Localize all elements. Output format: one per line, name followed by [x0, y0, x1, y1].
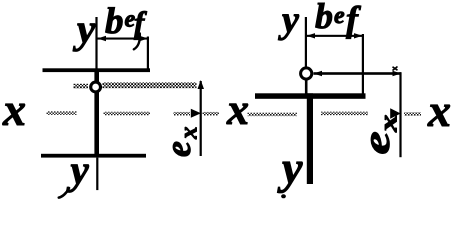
- y-axis segment between circle and flange (right section): [305, 80, 308, 94]
- centroid circle (left section): [91, 82, 101, 92]
- svg-text:x: x: [427, 85, 451, 136]
- bottom flange (left section): [41, 154, 146, 158]
- centroid circle (right section): [301, 68, 312, 79]
- x-axis dash right (right section): [321, 112, 368, 116]
- short centroid dash left of circle (left section): [74, 84, 89, 89]
- y-axis lower segment (left section): [96, 158, 98, 191]
- arrowhead right on centroid line (right section): [393, 71, 402, 76]
- small cross mark above corner (right section): [393, 67, 398, 71]
- arrowhead right of b_ef (left section): [140, 36, 149, 41]
- dimension line b_ef (left section): [97, 38, 148, 40]
- x-axis dash 2 (left section): [104, 112, 151, 116]
- svg-text:x: x: [2, 84, 26, 135]
- arrowhead up at top of e_x (left section): [198, 80, 205, 89]
- svg-text:b: b: [105, 1, 124, 42]
- svg-text:x: x: [226, 85, 249, 134]
- svg-text:e: e: [334, 3, 345, 29]
- x-axis short dash after dimension (right section): [404, 112, 421, 116]
- x-axis dash left (right section): [248, 113, 298, 117]
- arrowhead left of b_ef (left section): [98, 36, 107, 41]
- web (right section): [307, 93, 313, 184]
- svg-text:b: b: [315, 0, 333, 36]
- flange (right section): [255, 93, 366, 99]
- dimension line b_ef (right section): [306, 35, 363, 37]
- arrowhead left of b_ef (right section): [307, 33, 316, 38]
- arrowhead at x-axis on e_x (right section): [390, 108, 401, 118]
- extension tick right of b_ef down to flange (right section): [362, 34, 364, 94]
- arrowhead at x-axis on e_x (left section): [191, 109, 201, 118]
- x-axis dash 4 (left section): [203, 112, 220, 116]
- arrowhead right of b_ef (right section): [354, 33, 363, 38]
- y-axis upper segment (left section): [95, 17, 97, 69]
- extension tick right of b_ef (left section): [147, 37, 149, 71]
- dimension line e_x vertical (right section): [399, 72, 401, 157]
- centroid line from circle to e_x dimension (right section): [314, 72, 402, 75]
- x-axis dash 3 (left section): [174, 112, 191, 116]
- web (left section): [94, 72, 99, 154]
- arrowhead left on centroid line (right section): [314, 71, 323, 76]
- dimension line e_x vertical (left section): [200, 81, 202, 156]
- svg-text:y: y: [278, 0, 299, 41]
- centroid dotted line to dimension (left section): [103, 82, 197, 88]
- y-axis upper segment (right section): [305, 17, 307, 67]
- top flange (left section): [43, 68, 151, 72]
- x-axis dash 1 (left section): [47, 111, 77, 115]
